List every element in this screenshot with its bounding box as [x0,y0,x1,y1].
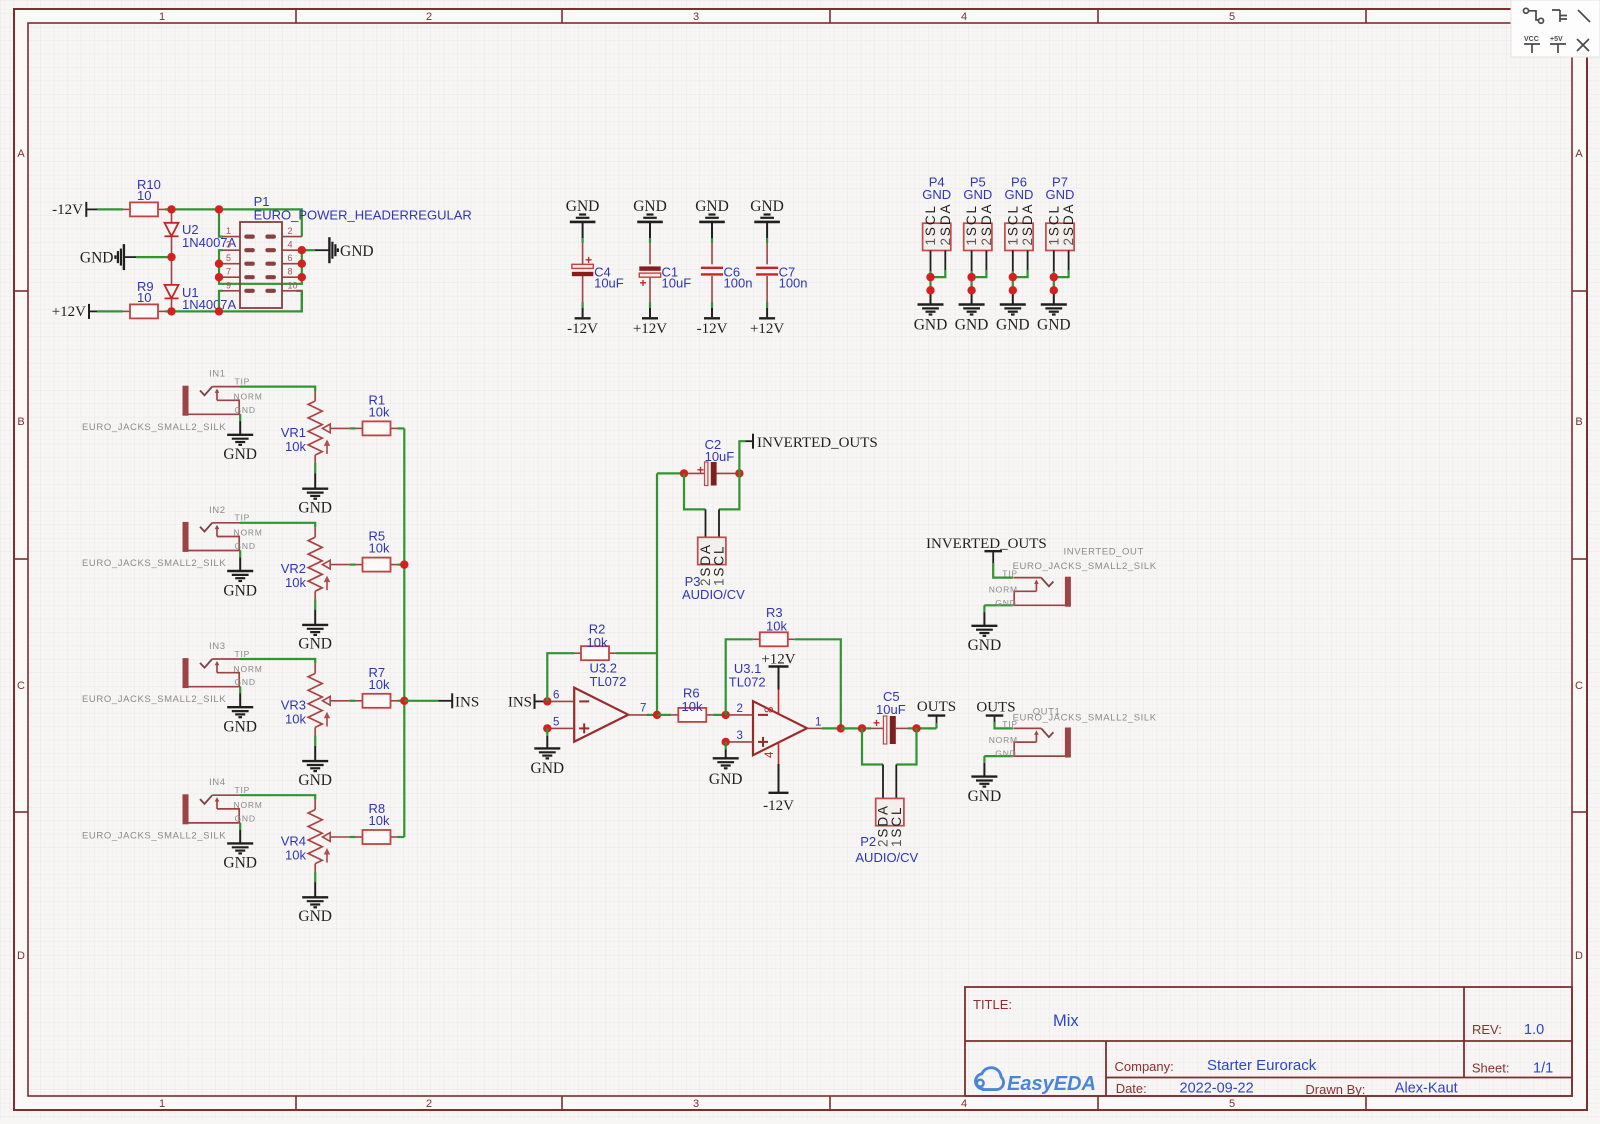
svg-text:B: B [17,416,24,428]
svg-text:+12V: +12V [750,321,784,337]
svg-text:2SDA: 2SDA [938,203,953,246]
svg-text:10k: 10k [285,711,306,726]
svg-text:NORM: NORM [989,584,1018,594]
svg-text:1SCL: 1SCL [1046,204,1061,245]
svg-text:-12V: -12V [567,321,598,337]
svg-text:8: 8 [288,267,293,277]
svg-text:2: 2 [737,703,743,715]
svg-text:VCC: VCC [1524,36,1539,43]
svg-text:2SDA: 2SDA [979,203,994,246]
svg-text:NORM: NORM [234,664,263,674]
svg-text:TIP: TIP [235,513,251,523]
svg-text:EURO_POWER_HEADERREGULAR: EURO_POWER_HEADERREGULAR [254,208,472,223]
svg-text:3: 3 [226,240,231,250]
svg-text:B: B [1575,416,1582,428]
svg-text:6: 6 [288,253,293,263]
svg-text:GND: GND [223,855,257,872]
svg-text:GND: GND [223,719,257,736]
svg-text:Company:: Company: [1115,1059,1174,1074]
svg-text:GND: GND [235,405,256,415]
svg-text:4: 4 [961,11,967,23]
svg-text:GND: GND [750,198,784,215]
svg-text:NORM: NORM [989,735,1018,745]
svg-text:GND: GND [955,317,989,334]
svg-text:GND: GND [996,317,1030,334]
svg-text:1SCL: 1SCL [711,545,726,586]
svg-text:5: 5 [553,717,559,729]
svg-text:GND: GND [922,187,951,202]
svg-text:TIP: TIP [1002,568,1018,578]
svg-text:GND: GND [633,198,667,215]
svg-text:+: + [640,276,647,290]
svg-text:Starter Eurorack: Starter Eurorack [1207,1057,1317,1074]
svg-text:9: 9 [226,280,231,290]
svg-text:10k: 10k [369,404,390,419]
svg-text:OUTS: OUTS [976,700,1015,716]
svg-text:5: 5 [1229,11,1235,23]
svg-text:GND: GND [235,677,256,687]
svg-text:-12V: -12V [697,321,728,337]
svg-text:1N4007A: 1N4007A [182,297,237,312]
svg-text:GND: GND [1046,187,1075,202]
svg-text:GND: GND [235,541,256,551]
svg-text:GND: GND [1005,187,1034,202]
svg-text:P2: P2 [860,834,876,849]
svg-text:1SCL: 1SCL [923,204,938,245]
svg-text:GND: GND [531,760,565,777]
svg-text:10k: 10k [369,813,390,828]
svg-text:+12V: +12V [633,321,667,337]
svg-text:+12V: +12V [52,304,86,320]
svg-text:2022-09-22: 2022-09-22 [1180,1081,1254,1097]
svg-text:NORM: NORM [234,800,263,810]
svg-text:IN2: IN2 [209,505,226,516]
svg-text:TL072: TL072 [590,674,627,689]
svg-text:4: 4 [764,751,776,758]
svg-text:VR4: VR4 [281,834,306,849]
svg-text:10: 10 [137,290,151,305]
svg-text:EURO_JACKS_SMALL2_SILK: EURO_JACKS_SMALL2_SILK [82,558,226,569]
svg-text:VR3: VR3 [281,697,306,712]
svg-text:INS: INS [508,695,532,711]
svg-text:7: 7 [226,267,231,277]
svg-text:1SCL: 1SCL [964,204,979,245]
svg-text:1/1: 1/1 [1533,1061,1553,1077]
svg-text:GND: GND [963,187,992,202]
svg-text:IN1: IN1 [209,369,226,380]
svg-text:GND: GND [223,582,257,599]
svg-text:GND: GND [1037,317,1071,334]
svg-text:2: 2 [426,1098,432,1110]
svg-text:+: + [697,463,704,477]
svg-text:6: 6 [553,690,559,702]
svg-text:OUTS: OUTS [917,699,956,715]
svg-text:2SDA: 2SDA [1061,203,1076,246]
svg-text:EURO_JACKS_SMALL2_SILK: EURO_JACKS_SMALL2_SILK [82,422,226,433]
svg-text:IN3: IN3 [209,641,226,652]
svg-text:10k: 10k [587,635,608,650]
svg-text:GND: GND [709,771,743,788]
svg-text:GND: GND [968,788,1002,805]
svg-text:Drawn By:: Drawn By: [1305,1082,1365,1097]
svg-text:TIP: TIP [235,785,251,795]
svg-text:+5V: +5V [1550,36,1563,43]
svg-text:TIP: TIP [1002,719,1018,729]
svg-text:3: 3 [693,1098,699,1110]
svg-text:AUDIO/CV: AUDIO/CV [682,587,745,602]
svg-text:VR2: VR2 [281,561,306,576]
svg-text:C: C [17,680,25,692]
svg-text:10k: 10k [285,848,306,863]
svg-text:10uF: 10uF [662,276,692,291]
svg-text:AUDIO/CV: AUDIO/CV [855,850,918,865]
svg-text:+12V: +12V [761,652,795,668]
svg-text:GND: GND [566,198,600,215]
svg-text:IN4: IN4 [209,777,226,788]
svg-text:10k: 10k [285,575,306,590]
svg-text:+: + [585,253,592,267]
svg-text:10uF: 10uF [876,702,906,717]
svg-text:Mix: Mix [1053,1012,1079,1030]
svg-text:10k: 10k [766,619,787,634]
svg-text:4: 4 [288,240,293,250]
svg-text:GND: GND [914,317,948,334]
svg-text:8: 8 [764,707,776,713]
svg-text:1.0: 1.0 [1524,1022,1544,1038]
svg-text:INS: INS [455,695,479,711]
svg-text:1: 1 [815,717,821,729]
svg-text:INVERTED_OUTS: INVERTED_OUTS [926,536,1047,552]
svg-text:GND: GND [298,636,332,653]
svg-text:EURO_JACKS_SMALL2_SILK: EURO_JACKS_SMALL2_SILK [1013,561,1157,572]
svg-text:GND: GND [340,243,374,260]
svg-text:10: 10 [288,280,298,290]
svg-text:GND: GND [298,500,332,517]
svg-text:NORM: NORM [234,391,263,401]
svg-text:5: 5 [226,253,231,263]
svg-text:10: 10 [137,188,151,203]
svg-text:REV:: REV: [1472,1022,1502,1037]
svg-text:TIP: TIP [235,376,251,386]
svg-text:GND: GND [223,446,257,463]
svg-text:TIP: TIP [235,649,251,659]
svg-text:TITLE:: TITLE: [973,997,1012,1012]
svg-text:NORM: NORM [234,528,263,538]
svg-text:2: 2 [426,11,432,23]
svg-text:GND: GND [995,598,1016,608]
svg-text:VR1: VR1 [281,425,306,440]
svg-text:D: D [17,950,25,962]
svg-text:Sheet:: Sheet: [1472,1061,1510,1076]
svg-text:EURO_JACKS_SMALL2_SILK: EURO_JACKS_SMALL2_SILK [1013,713,1157,724]
svg-text:1SCL: 1SCL [889,806,904,847]
svg-text:GND: GND [298,908,332,925]
svg-text:1: 1 [226,226,231,236]
svg-text:2SDA: 2SDA [1020,203,1035,246]
svg-text:4: 4 [961,1098,967,1110]
svg-text:+: + [873,716,880,730]
svg-text:1: 1 [159,11,165,23]
svg-text:GND: GND [968,637,1002,654]
svg-text:100n: 100n [724,276,753,291]
svg-text:10k: 10k [369,677,390,692]
svg-text:EURO_JACKS_SMALL2_SILK: EURO_JACKS_SMALL2_SILK [82,830,226,841]
svg-text:A: A [1575,148,1583,160]
svg-text:10uF: 10uF [594,276,624,291]
svg-text:A: A [17,148,25,160]
svg-text:INVERTED_OUT: INVERTED_OUT [1064,547,1144,558]
svg-text:Date:: Date: [1116,1081,1147,1096]
svg-text:EURO_JACKS_SMALL2_SILK: EURO_JACKS_SMALL2_SILK [82,694,226,705]
svg-text:10k: 10k [285,439,306,454]
svg-text:2: 2 [288,226,293,236]
svg-text:GND: GND [695,198,729,215]
svg-text:GND: GND [298,772,332,789]
svg-text:TL072: TL072 [729,675,766,690]
svg-text:-12V: -12V [52,202,83,218]
svg-text:EasyEDA: EasyEDA [1007,1073,1096,1095]
svg-text:1: 1 [159,1098,165,1110]
svg-text:5: 5 [1229,1098,1235,1110]
svg-text:7: 7 [640,703,646,715]
svg-text:GND: GND [995,749,1016,759]
svg-text:3: 3 [693,11,699,23]
svg-text:100n: 100n [779,276,808,291]
svg-text:-12V: -12V [763,798,794,814]
svg-text:D: D [1575,950,1583,962]
svg-text:Alex-Kaut: Alex-Kaut [1395,1081,1458,1097]
svg-text:10uF: 10uF [705,449,735,464]
svg-text:C: C [1575,680,1583,692]
svg-text:3: 3 [737,730,743,742]
svg-text:10k: 10k [369,541,390,556]
svg-text:GND: GND [80,249,114,266]
svg-text:GND: GND [235,813,256,823]
svg-text:1SCL: 1SCL [1005,204,1020,245]
svg-text:10k: 10k [682,699,703,714]
svg-text:INVERTED_OUTS: INVERTED_OUTS [757,435,878,451]
